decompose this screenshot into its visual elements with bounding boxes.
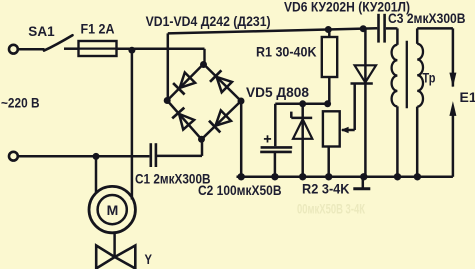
wire bridge right node to bottom bus	[240, 101, 243, 177]
svg-text:М: М	[107, 202, 119, 218]
transformer Tp secondary winding	[417, 28, 423, 176]
motor M	[89, 186, 135, 232]
diode VD4 (bottom-right)	[209, 110, 231, 132]
capacitor C3	[379, 14, 397, 43]
switch SA1 blade	[44, 35, 73, 50]
capacitor C2 (electrolytic)	[260, 104, 292, 177]
svg-text:Е1: Е1	[460, 89, 475, 105]
wire fuse to bridge top corner	[117, 49, 205, 64]
svg-text:Тр: Тр	[423, 70, 436, 86]
svg-text:VD1-VD4 Д242 (Д231): VD1-VD4 Д242 (Д231)	[146, 13, 271, 29]
junction node motor tap bottom	[93, 153, 100, 160]
resistor R1	[322, 26, 337, 104]
valve Y (bowtie)	[96, 246, 135, 269]
svg-text:00мкХ50В 3-4К: 00мкХ50В 3-4К	[297, 201, 365, 217]
node wire (zener node)	[275, 103, 328, 106]
svg-text:R2 3-4K: R2 3-4K	[302, 181, 350, 197]
zener diode VD5	[291, 104, 312, 177]
thyristor VD6	[351, 25, 377, 177]
svg-text:Y: Y	[145, 251, 153, 267]
electrode E1 spark gap	[449, 28, 456, 176]
svg-text:~220 В: ~220 В	[1, 95, 40, 111]
diode VD3 (top-right)	[210, 70, 232, 92]
wire from switch to fuse	[64, 47, 78, 50]
transformer Tp primary winding	[392, 28, 398, 176]
transformer core	[406, 41, 408, 108]
wire motor left lead	[95, 156, 98, 192]
potentiometer R2	[323, 111, 340, 177]
R2 wiper arrow to thyristor gate	[341, 84, 355, 134]
junction node motor tap top	[128, 47, 135, 54]
node bridge top	[200, 61, 207, 68]
input terminal top	[9, 45, 18, 54]
bottom common bus	[237, 176, 453, 179]
node bridge right	[238, 98, 245, 105]
svg-text:С3 2мкХ300В: С3 2мкХ300В	[388, 10, 466, 26]
svg-text:SA1: SA1	[28, 23, 55, 39]
wire secondary top to E1	[417, 27, 453, 30]
svg-text:R1 30-40K: R1 30-40K	[256, 44, 317, 60]
wire riser from bridge left node to top bus (crossover)	[167, 33, 170, 100]
wire motor to valve	[113, 232, 116, 257]
diode VD2 (bottom-left)	[172, 108, 194, 130]
bottom mains wire	[18, 155, 149, 158]
wire C1 to bridge bottom node	[157, 139, 202, 156]
wire from top terminal to switch pivot	[18, 48, 44, 51]
svg-text:F1 2A: F1 2A	[81, 21, 115, 37]
bridge rectifier VD1-VD4 frame	[167, 64, 241, 139]
bus junction dots	[238, 173, 422, 180]
top DC bus	[168, 28, 377, 33]
svg-text:С2 100мкХ50В: С2 100мкХ50В	[198, 182, 282, 198]
svg-text:VD5 Д808: VD5 Д808	[246, 84, 309, 100]
capacitor C1	[151, 143, 156, 167]
node bridge bottom	[198, 136, 205, 143]
ground symbol	[353, 177, 370, 189]
node C2 junction top	[299, 100, 331, 107]
fuse F1 body	[79, 41, 117, 56]
wire motor right lead (crosses bottom mains wire)	[131, 50, 134, 199]
node bridge left	[164, 97, 171, 104]
diode VD1 (top-left)	[173, 73, 195, 95]
input terminal bottom	[9, 152, 18, 161]
